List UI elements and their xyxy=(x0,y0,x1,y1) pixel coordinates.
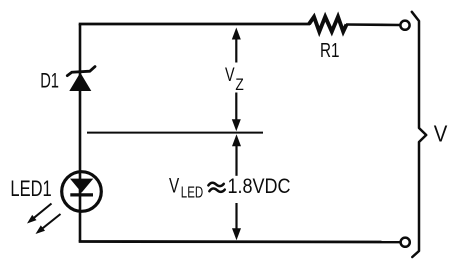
resistor R1 xyxy=(309,17,347,32)
svg-text:Z: Z xyxy=(235,76,243,94)
bottom terminal (open circle) xyxy=(401,238,410,247)
dimension arrow Vz (top wire to reference line) xyxy=(232,28,241,132)
wire R1 to top terminal xyxy=(346,23,400,26)
node middle reference line (zener/LED junction level) xyxy=(87,132,263,134)
label LED1 xyxy=(10,176,51,201)
label Vled ~= 1.8VDC xyxy=(169,173,291,201)
wire bottom (LED branch to bottom terminal) xyxy=(79,240,400,243)
svg-text:LED1: LED1 xyxy=(10,176,51,201)
svg-text:V: V xyxy=(434,121,448,147)
zener diode D1 xyxy=(67,67,95,91)
svg-text:D1: D1 xyxy=(40,68,59,92)
brace V (output voltage bracket) xyxy=(412,12,426,257)
wire top (left node to R1) xyxy=(79,23,310,26)
LED LED1 xyxy=(62,172,102,212)
dimension arrow Vled (reference line to bottom wire) xyxy=(232,134,241,240)
LED light arrow 1 xyxy=(27,204,52,224)
label Vz xyxy=(225,65,244,94)
top terminal (open circle) xyxy=(400,21,409,30)
svg-text:V: V xyxy=(169,173,180,197)
wire left vertical (D1/LED1 branch) xyxy=(79,24,82,242)
label V xyxy=(434,121,448,147)
svg-text:R1: R1 xyxy=(320,40,340,62)
svg-text:LED: LED xyxy=(181,185,203,202)
svg-text:1.8VDC: 1.8VDC xyxy=(228,175,291,198)
label D1 xyxy=(40,68,59,92)
label R1 xyxy=(320,40,340,62)
svg-text:V: V xyxy=(225,65,235,86)
LED light arrow 2 xyxy=(36,214,61,234)
